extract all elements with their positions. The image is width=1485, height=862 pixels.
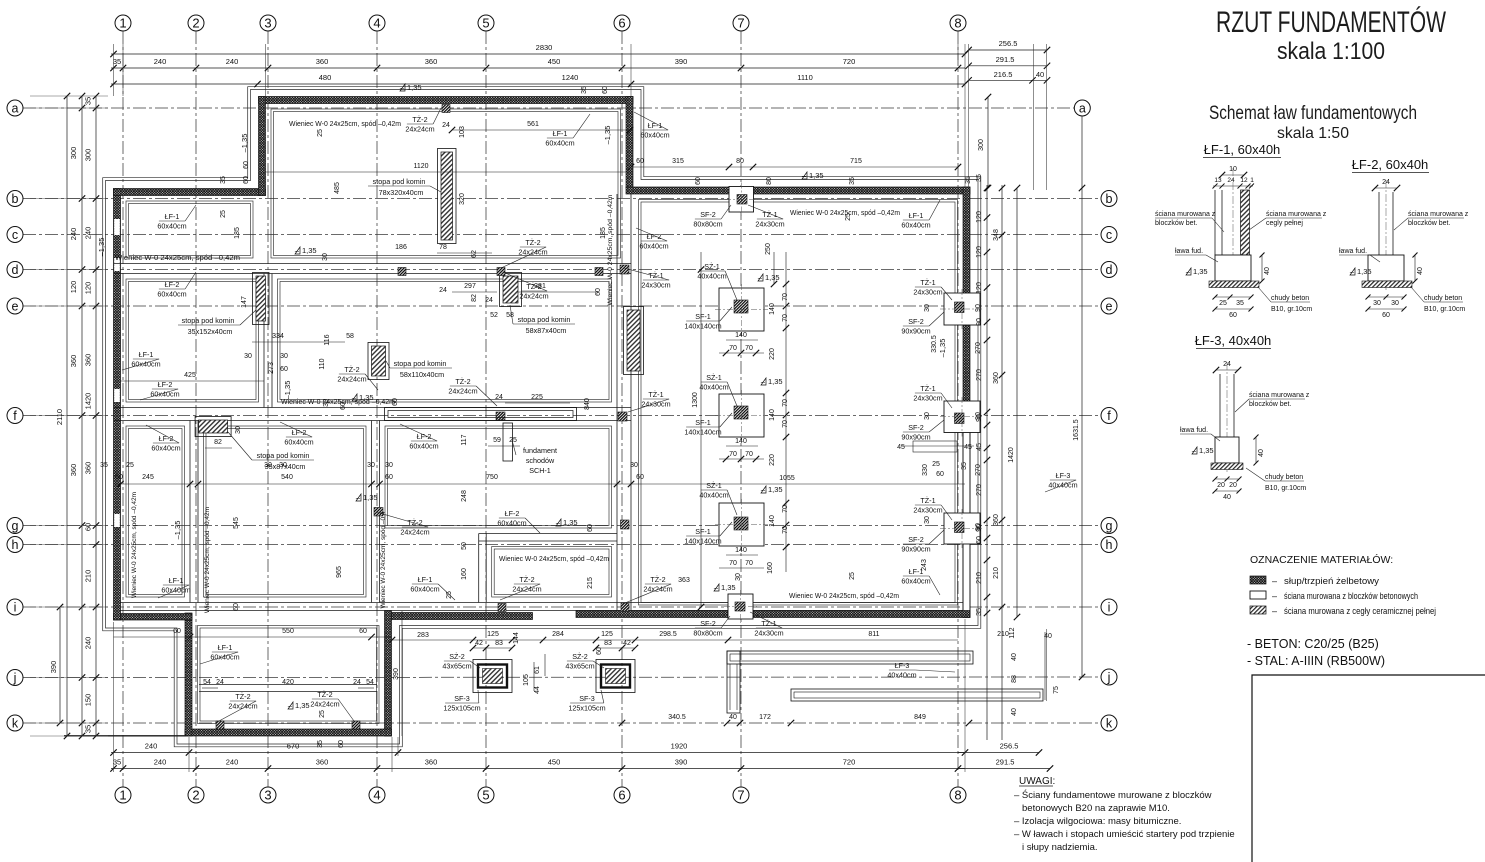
grid axis line a [23, 107, 1074, 109]
dims 60/315/80/715 row [631, 166, 958, 168]
svg-text:210: 210 [976, 572, 983, 584]
svg-text:24: 24 [216, 679, 224, 686]
svg-text:bloczków bet.: bloczków bet. [1155, 220, 1197, 227]
wing TZ-2 dims [202, 687, 218, 689]
svg-text:360: 360 [993, 514, 1000, 526]
svg-text:540: 540 [281, 474, 293, 481]
svg-text:70: 70 [745, 345, 753, 352]
svg-text:330.5: 330.5 [931, 335, 938, 353]
svg-text:83: 83 [495, 640, 503, 647]
svg-text:750: 750 [486, 474, 498, 481]
svg-text:24: 24 [353, 679, 361, 686]
grid bubble k left [7, 715, 23, 731]
svg-text:OZNACZENIE MATERIAŁÓW:: OZNACZENIE MATERIAŁÓW: [1250, 553, 1393, 566]
svg-text:62: 62 [471, 250, 478, 258]
footing SF-2 90x90 (grid8/row g) [944, 513, 980, 544]
svg-text:12: 12 [1240, 177, 1248, 184]
svg-text:360: 360 [316, 57, 329, 66]
svg-text:185: 185 [234, 227, 241, 239]
TZ-2 marker row f beam [496, 412, 505, 420]
svg-text:720: 720 [843, 758, 856, 767]
svg-text:90: 90 [975, 523, 982, 531]
svg-text:ława fud.: ława fud. [1339, 248, 1367, 255]
svg-text:61: 61 [534, 666, 541, 674]
svg-text:ława fud.: ława fud. [1175, 248, 1203, 255]
svg-text:h: h [12, 538, 19, 552]
svg-text:ŁF-1, 60x40h: ŁF-1, 60x40h [1204, 142, 1281, 157]
svg-text:ŁF-2: ŁF-2 [292, 428, 307, 437]
svg-text:ława fud.: ława fud. [1180, 427, 1208, 434]
wall left of interior room [478, 534, 480, 603]
grid bubble f left [7, 408, 23, 424]
svg-text:4: 4 [373, 788, 380, 803]
svg-text:140x140cm: 140x140cm [684, 428, 721, 437]
TZ-2 marker row d centre [497, 268, 505, 276]
svg-text:ŁF-3, 40x40h: ŁF-3, 40x40h [1195, 333, 1272, 348]
svg-text:stopa pod komin: stopa pod komin [518, 315, 571, 324]
svg-text:140: 140 [735, 332, 747, 339]
wall vertical grid 6 (west of right wing) [616, 194, 618, 611]
TZ-2 marker row d west [398, 268, 406, 276]
wall row d (interior) [114, 263, 632, 265]
grid bubble 7 bottom [733, 787, 749, 803]
room F inner lines (left lower) [126, 426, 185, 597]
east extension line x1033 [1033, 44, 1035, 190]
svg-text:j: j [13, 671, 17, 685]
svg-text:60: 60 [1382, 312, 1390, 319]
svg-text:360: 360 [425, 57, 438, 66]
k-row dims 340.5/40/172/849 [619, 720, 625, 726]
svg-text:24: 24 [439, 287, 447, 294]
strip footing LF-3 left leg [727, 651, 740, 713]
svg-text:Wieniec W-0 24x25cm, spód –0,4: Wieniec W-0 24x25cm, spód –0,42m [204, 507, 211, 613]
svg-text:60x40cm: 60x40cm [157, 290, 186, 299]
svg-text:30: 30 [367, 462, 375, 469]
svg-text:45: 45 [976, 443, 983, 451]
svg-text:25: 25 [1219, 300, 1227, 307]
svg-text:TŻ-2: TŻ-2 [650, 575, 665, 584]
svg-text:ŁF-3: ŁF-3 [1056, 471, 1071, 480]
wall vertical x375 (f-i) [371, 421, 373, 603]
svg-text:82: 82 [471, 294, 478, 302]
svg-text:25: 25 [446, 591, 453, 599]
svg-text:140x140cm: 140x140cm [684, 537, 721, 546]
strip footing LF-3 upper run [727, 651, 973, 664]
svg-text:42: 42 [475, 640, 483, 647]
room I inner lines (interior small room) [492, 547, 612, 598]
svg-text:210: 210 [997, 631, 1009, 638]
left -1,35 marker [97, 238, 106, 257]
svg-text:70: 70 [782, 399, 789, 407]
svg-text:Schemat ław fundamentowych: Schemat ław fundamentowych [1209, 103, 1417, 124]
grid axis line j [23, 676, 1100, 679]
svg-text:40x40cm: 40x40cm [699, 383, 728, 392]
svg-text:35: 35 [84, 97, 93, 105]
detail LF-2 drawing [1375, 187, 1397, 189]
svg-text:60: 60 [636, 158, 644, 165]
svg-text:54: 54 [366, 679, 374, 686]
strip footing LF-3 lower run [791, 689, 1043, 701]
svg-text:3: 3 [264, 788, 271, 803]
svg-text:125: 125 [601, 631, 613, 638]
svg-text:ściana murowana z: ściana murowana z [1408, 211, 1469, 218]
svg-text:1240: 1240 [562, 73, 579, 82]
wall vertical grid 3 (d-f) [263, 274, 265, 408]
svg-text:58: 58 [346, 333, 354, 340]
svg-text:720: 720 [843, 57, 856, 66]
svg-text:172: 172 [759, 714, 771, 721]
wall row i west segment [114, 614, 193, 621]
svg-text:1,35: 1,35 [359, 393, 374, 402]
svg-text:30: 30 [279, 462, 287, 469]
svg-text:1,35: 1,35 [302, 246, 317, 255]
footing SZ-2/SF-3 (grid6/row j) [596, 660, 635, 693]
detail LF-1 drawing [1222, 174, 1244, 176]
svg-text:363: 363 [678, 577, 690, 584]
svg-text:35: 35 [113, 758, 121, 767]
svg-text:1110: 1110 [797, 73, 813, 82]
wall top (rows a, grid 3-6) [259, 97, 634, 104]
east dimension line 1631.5 [1081, 116, 1083, 677]
svg-text:SF-2: SF-2 [908, 317, 924, 326]
svg-text:90: 90 [976, 318, 983, 326]
svg-text:849: 849 [914, 714, 926, 721]
svg-text:284: 284 [552, 631, 564, 638]
svg-text:bloczków bet.: bloczków bet. [1249, 401, 1291, 408]
wall vertical x190 (f-i) [189, 421, 191, 603]
svg-text:SF-1: SF-1 [695, 527, 711, 536]
svg-text:j: j [1107, 670, 1111, 684]
grid axis line 8 [957, 31, 959, 787]
svg-text:3: 3 [264, 16, 271, 31]
svg-text:60: 60 [340, 402, 347, 410]
svg-text:24: 24 [485, 297, 493, 304]
room E inner lines (right wing) [639, 200, 958, 606]
svg-text:8: 8 [954, 788, 961, 803]
grid axis line c [23, 234, 1100, 236]
svg-text:270: 270 [975, 464, 982, 476]
footing SZ-2/SF-3 (grid5/row j) [473, 660, 512, 693]
chimney footing 35x152x40 (grid3/row d) [253, 273, 270, 325]
svg-text:SF-3: SF-3 [454, 694, 470, 703]
svg-text:42: 42 [623, 640, 631, 647]
svg-text:40: 40 [1223, 494, 1231, 501]
grid bubble 2 top [188, 15, 204, 31]
svg-text:2110: 2110 [55, 409, 64, 425]
45 45 dims [901, 445, 974, 447]
svg-text:348: 348 [993, 229, 1000, 241]
svg-text:60: 60 [243, 161, 250, 169]
svg-text:fundament: fundament [523, 446, 557, 455]
svg-text:1120: 1120 [413, 163, 428, 170]
svg-text:40: 40 [1011, 653, 1018, 661]
svg-text:270: 270 [976, 484, 983, 496]
svg-text:140: 140 [735, 547, 747, 554]
grid bubble k right [1101, 715, 1117, 731]
legend item slup/trzpien zelbetowy [1250, 576, 1266, 584]
grid bubble 6 top [614, 15, 630, 31]
svg-text:1: 1 [1250, 177, 1254, 184]
svg-text:1055: 1055 [779, 475, 795, 482]
svg-text:210: 210 [84, 570, 93, 583]
svg-text:d: d [12, 263, 19, 277]
svg-text:40x40cm: 40x40cm [887, 671, 916, 680]
svg-text:300: 300 [84, 149, 93, 162]
svg-text:30: 30 [924, 304, 931, 312]
svg-text:60: 60 [280, 366, 288, 373]
svg-text:stopa pod komin: stopa pod komin [257, 451, 310, 460]
svg-text:Wieniec W-0 24x25cm, spód –0,4: Wieniec W-0 24x25cm, spód –0,42m [131, 492, 138, 598]
svg-text:35: 35 [317, 740, 324, 748]
svg-text:80x80cm: 80x80cm [693, 220, 722, 229]
svg-text:60: 60 [695, 177, 702, 185]
svg-text:40: 40 [1011, 708, 1018, 716]
bottom area dim chain 283/125/... [392, 639, 958, 641]
east extension x968 [968, 44, 970, 188]
TZ-1 marker grid6 row i [621, 603, 629, 611]
svg-text:i: i [1108, 600, 1111, 614]
svg-text:SŻ-1: SŻ-1 [706, 481, 722, 490]
svg-text:ŁF-2: ŁF-2 [417, 432, 432, 441]
svg-text:UWAGI:: UWAGI: [1019, 776, 1055, 787]
svg-text:59: 59 [493, 437, 501, 444]
svg-text:25: 25 [317, 129, 324, 137]
foundation outer edge lines [106, 90, 979, 745]
grid bubble g left [7, 518, 23, 534]
svg-text:24x24cm: 24x24cm [310, 700, 339, 709]
svg-text:60x40cm: 60x40cm [284, 438, 313, 447]
svg-text:60x40cm: 60x40cm [901, 577, 930, 586]
grid bubble d right [1101, 262, 1117, 278]
svg-text:35: 35 [84, 725, 93, 733]
svg-text:Wieniec W-0 24x25cm, spód –0,4: Wieniec W-0 24x25cm, spód –0,42m [289, 119, 401, 128]
svg-text:140: 140 [769, 515, 776, 527]
svg-text:SF-2: SF-2 [700, 210, 716, 219]
svg-text:297: 297 [464, 283, 476, 290]
grid bubble j right [1101, 669, 1117, 685]
svg-text:SF-1: SF-1 [695, 312, 711, 321]
svg-text:283: 283 [417, 632, 429, 639]
svg-text:715: 715 [850, 158, 862, 165]
svg-text:30: 30 [1373, 300, 1381, 307]
svg-text:40x40cm: 40x40cm [699, 491, 728, 500]
tie beam TZ-2 row f outline [385, 408, 577, 421]
bottom extension lines [113, 622, 115, 772]
svg-text:60x40cm: 60x40cm [131, 360, 160, 369]
grid bubble 6 bottom [614, 787, 630, 803]
svg-text:1,35: 1,35 [1357, 267, 1372, 276]
svg-text:35: 35 [965, 176, 972, 184]
svg-text:90x90cm: 90x90cm [901, 327, 930, 336]
svg-text:25: 25 [932, 461, 940, 468]
svg-text:60x40cm: 60x40cm [901, 221, 930, 230]
svg-text:360: 360 [425, 758, 438, 767]
svg-text:g: g [12, 519, 19, 533]
svg-text:216.5: 216.5 [994, 70, 1013, 79]
svg-text:75: 75 [1053, 686, 1060, 694]
grid bubble 5 bottom [478, 787, 494, 803]
svg-text:360: 360 [84, 462, 93, 475]
svg-text:24x24cm: 24x24cm [448, 387, 477, 396]
room A inner lines (top centre) [271, 109, 621, 258]
svg-text:60x40cm: 60x40cm [210, 653, 239, 662]
svg-text:SF-2: SF-2 [908, 535, 924, 544]
svg-text:140: 140 [735, 438, 747, 445]
svg-text:390: 390 [675, 57, 688, 66]
title block frame corner [1252, 675, 1485, 862]
svg-text:ŁF-1: ŁF-1 [553, 129, 568, 138]
svg-text:35: 35 [976, 608, 983, 616]
wall bottom of right wing east segment (row i) [754, 611, 971, 618]
svg-text:40: 40 [1417, 267, 1424, 275]
dim 1120 [266, 171, 632, 173]
svg-text:20: 20 [1217, 482, 1225, 489]
svg-text:300: 300 [69, 147, 78, 160]
svg-text:70: 70 [745, 560, 753, 567]
top extension lines [113, 44, 115, 96]
room C inner lines (left middle) [126, 279, 259, 402]
svg-text:210: 210 [993, 567, 1000, 579]
svg-text:7: 7 [737, 16, 744, 31]
svg-text:60x40cm: 60x40cm [497, 519, 526, 528]
grid bubble i left [7, 599, 23, 615]
right wing vertical dim line x701 (1300) [700, 252, 702, 607]
svg-text:35: 35 [849, 177, 856, 185]
grid bubble 8 top [950, 15, 966, 31]
svg-text:125x105cm: 125x105cm [568, 704, 605, 713]
svg-text:schodów: schodów [526, 456, 555, 465]
svg-text:ŁF-2: ŁF-2 [505, 509, 520, 518]
footing SF-1 140x140 (grid7/row g) [719, 503, 764, 546]
svg-text:117: 117 [461, 434, 468, 445]
svg-text:TŻ-1: TŻ-1 [920, 278, 935, 287]
svg-text:1,35: 1,35 [1193, 267, 1208, 276]
svg-text:840: 840 [584, 398, 591, 410]
svg-text:1,35: 1,35 [809, 171, 824, 180]
svg-text:60: 60 [392, 398, 399, 406]
svg-text:TŻ-2: TŻ-2 [407, 518, 422, 527]
svg-text:35: 35 [961, 462, 968, 470]
svg-text:- STAL: A-IIIN (RB500W): - STAL: A-IIIN (RB500W) [1247, 654, 1385, 668]
svg-text:485: 485 [334, 182, 341, 194]
svg-text:TŻ-1: TŻ-1 [920, 384, 935, 393]
svg-text:58: 58 [506, 312, 514, 319]
svg-text:24x30cm: 24x30cm [641, 400, 670, 409]
svg-text:120: 120 [84, 282, 93, 295]
svg-text:TŻ-1: TŻ-1 [648, 390, 663, 399]
grid axis line h [23, 544, 1100, 546]
wall row b (left, grid 1-3) [114, 189, 266, 196]
svg-text:248: 248 [461, 490, 468, 502]
svg-text:b: b [1106, 192, 1113, 206]
chimney footing 35x87x40 (row f) [195, 417, 231, 437]
svg-text:60: 60 [233, 603, 240, 611]
left dimension chain 2110 [66, 96, 68, 736]
svg-text:b: b [12, 192, 19, 206]
svg-text:24x24cm: 24x24cm [337, 375, 366, 384]
svg-text:125x105cm: 125x105cm [443, 704, 480, 713]
svg-text:8: 8 [954, 16, 961, 31]
svg-text:SŻ-1: SŻ-1 [704, 262, 720, 271]
svg-text:7: 7 [737, 788, 744, 803]
grid bubble c left [7, 227, 23, 243]
grid bubble e right [1101, 298, 1117, 314]
svg-text:ściana murowana z cegły cerami: ściana murowana z cegły ceramicznej pełn… [1284, 606, 1436, 617]
dims 186/78/62 [437, 252, 492, 254]
svg-text:70: 70 [782, 314, 789, 322]
svg-text:13: 13 [1214, 177, 1222, 184]
TZ-2 marker row d east [595, 268, 603, 276]
grid bubble a right [1074, 100, 1090, 116]
svg-text:1,35: 1,35 [407, 83, 422, 92]
svg-text:60: 60 [587, 524, 594, 532]
svg-text:1420: 1420 [1008, 447, 1015, 463]
legend item sciana z cegly [1250, 606, 1266, 614]
svg-text:1,35: 1,35 [563, 518, 578, 527]
svg-text:a: a [1079, 101, 1086, 115]
svg-text:chudy beton: chudy beton [1265, 474, 1303, 481]
grid axis line f [23, 415, 1100, 417]
svg-text:e: e [12, 299, 19, 313]
svg-text:30: 30 [264, 462, 272, 469]
svg-text:45: 45 [964, 444, 972, 451]
east extension line x1046 [1046, 44, 1048, 190]
svg-text:1: 1 [119, 788, 126, 803]
svg-text:420: 420 [282, 679, 294, 686]
grid axis line 7 [740, 31, 742, 787]
svg-text:ŁF-1: ŁF-1 [165, 212, 180, 221]
svg-text:SŻ-2: SŻ-2 [572, 652, 588, 661]
svg-text:245: 245 [142, 474, 154, 481]
svg-text:chudy beton: chudy beton [1271, 295, 1309, 302]
grid bubble c right [1101, 227, 1117, 243]
svg-text:40: 40 [1036, 70, 1044, 79]
svg-text:–: – [1272, 576, 1277, 586]
svg-text:90: 90 [975, 304, 982, 312]
svg-text:SF-2: SF-2 [700, 619, 716, 628]
svg-text:Wieniec W-0 24x25cm, spód –0,4: Wieniec W-0 24x25cm, spód –0,4 [380, 511, 387, 608]
svg-text:60: 60 [936, 471, 944, 478]
42/83 dims [473, 647, 512, 649]
TZ-2 marker wing bottom west [216, 721, 224, 729]
svg-text:60: 60 [596, 647, 603, 655]
svg-text:60: 60 [338, 740, 345, 748]
svg-text:30: 30 [244, 353, 252, 360]
svg-text:60: 60 [636, 474, 644, 481]
grid axis line g [23, 525, 1100, 527]
grid bubble 3 bottom [260, 787, 276, 803]
svg-text:140x140cm: 140x140cm [684, 322, 721, 331]
svg-text:– Izolacja wilgociowa: masy b: – Izolacja wilgociowa: masy bitumiczne. [1014, 816, 1181, 827]
left chains base line [64, 735, 186, 737]
left dimension chain 390 [59, 607, 61, 723]
svg-text:SF-3: SF-3 [579, 694, 595, 703]
svg-text:965: 965 [336, 566, 343, 578]
svg-text:Wieniec W-0 24x25cm, spód –0,4: Wieniec W-0 24x25cm, spód –0,42m [499, 556, 609, 563]
svg-text:60x40cm: 60x40cm [640, 131, 669, 140]
room G inner lines [204, 426, 367, 597]
svg-text:6: 6 [618, 788, 625, 803]
svg-text:315: 315 [672, 158, 684, 165]
grid bubble b left [7, 191, 23, 207]
label -1,35 rot room F [173, 521, 182, 540]
svg-text:ŁF-2, 60x40h: ŁF-2, 60x40h [1352, 157, 1429, 172]
wall east lower part [963, 430, 970, 618]
wall east (hatched upper part) [963, 187, 970, 433]
svg-text:110: 110 [319, 358, 326, 369]
svg-text:betonowych B20 na zaprawie M10: betonowych B20 na zaprawie M10. [1022, 803, 1170, 814]
svg-text:ŁF-1: ŁF-1 [909, 211, 924, 220]
